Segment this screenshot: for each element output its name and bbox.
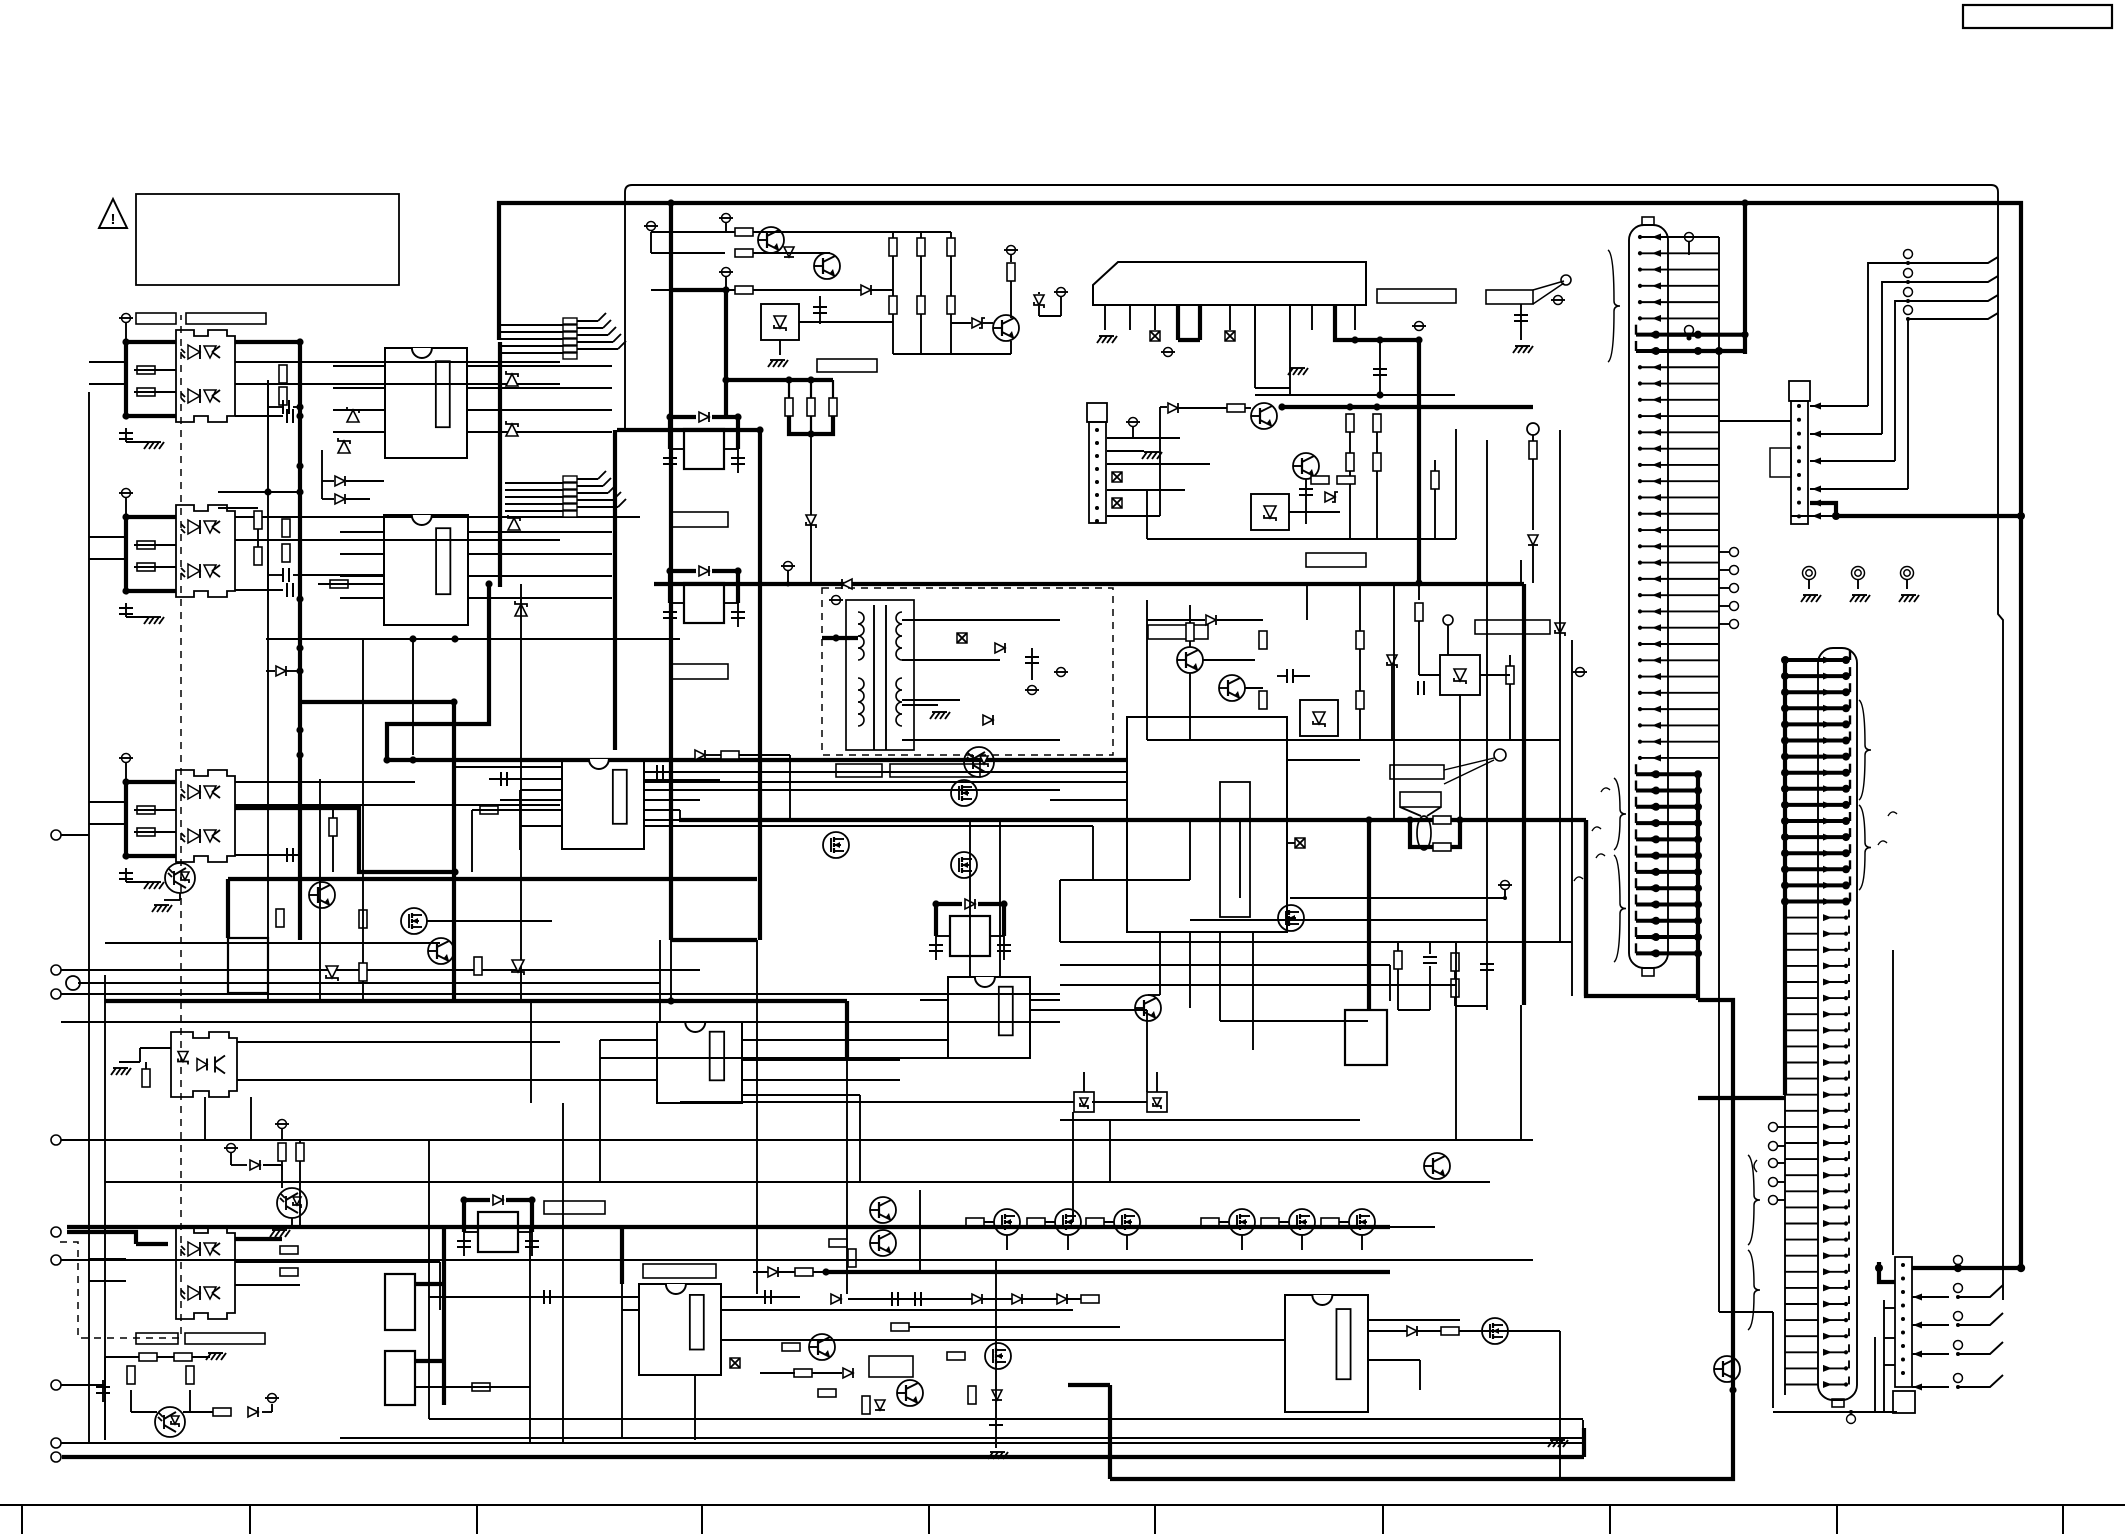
svg-text:!: ! [111,211,116,228]
